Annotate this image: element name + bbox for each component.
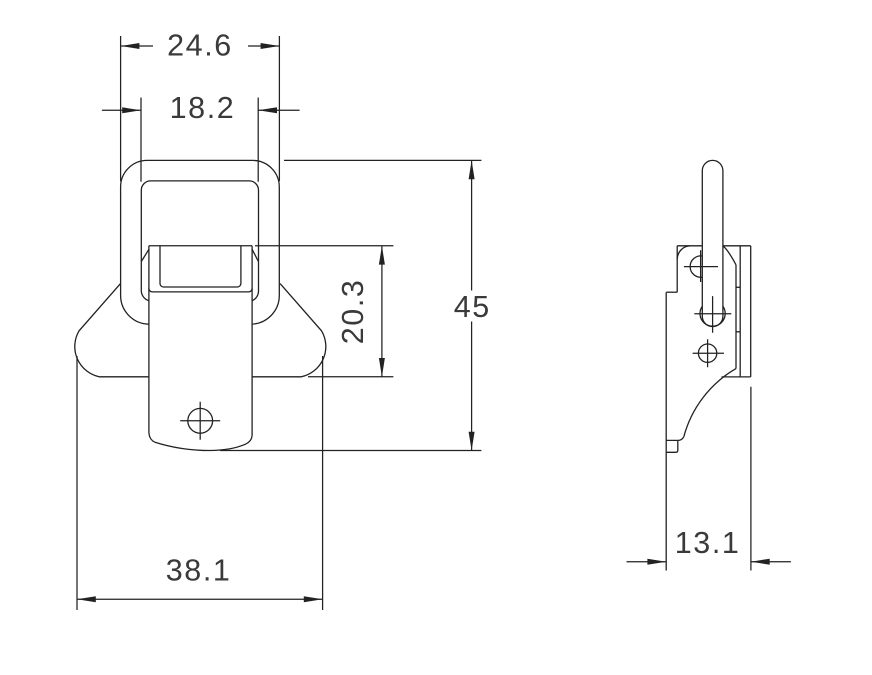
dimension 38.1: dimension line [77, 598, 323, 600]
side view foot fillet and top edge [666, 437, 684, 441]
side view upper mounting hole (arc, occluded by wire) [690, 256, 702, 277]
side view keeper plate right edge [750, 246, 752, 377]
side view lower hole crosshair [693, 339, 724, 367]
dimension 18.2: arrows [122, 107, 277, 113]
dimension 24.6: arrows [121, 43, 280, 49]
base plate (front view) [75, 284, 326, 377]
side view bracket face line [735, 265, 737, 369]
svg-text:24.6: 24.6 [167, 29, 233, 63]
side view bend arc top-left [677, 246, 690, 259]
dimension 45: arrows [469, 160, 475, 450]
side view upper hole crosshair [684, 250, 718, 282]
keeper flange chamfer left [141, 249, 149, 261]
svg-text:20.3: 20.3 [336, 279, 370, 345]
side view bend arc top-right [723, 246, 736, 265]
strap (front view) [149, 246, 252, 451]
dimension 20.3: dimension line [381, 246, 383, 377]
side view slot tick lower [736, 331, 740, 333]
side view bracket left edge lower (continues as 13.1 extension line) [665, 292, 667, 570]
side view foot right edge [666, 440, 678, 452]
svg-text:45: 45 [454, 290, 491, 324]
svg-text:13.1: 13.1 [675, 526, 741, 560]
rivet hole crosshair [180, 402, 220, 440]
dimension 45: dimension line [471, 160, 473, 450]
dimension 24.6: extension lines [121, 36, 280, 181]
loop inner (front view) [141, 181, 258, 301]
side view bracket left edge upper [676, 246, 678, 292]
dimension 24.6: dimension line stubs [121, 45, 280, 47]
dimension 38.1: arrows [77, 596, 323, 602]
dimension 18.2: outside arrow lines [102, 109, 300, 111]
side view wire bail (stadium) [702, 160, 723, 326]
side view slot tick upper [736, 286, 740, 288]
side view concave profile curve [684, 369, 736, 437]
side view lower hole [698, 344, 716, 362]
side view bracket step [666, 291, 677, 293]
side view pivot circle (arc, occluded by wire) [700, 306, 725, 326]
dimension 20.3: arrows [379, 246, 385, 377]
dimension 13.1: outside arrow lines [627, 561, 791, 563]
dimension 20.3: extension lines [255, 246, 393, 377]
keeper folded bottom edge [149, 288, 252, 292]
dimension 13.1: right extension line [750, 387, 752, 571]
keeper inner bend lines [160, 246, 241, 287]
dimension 45: extension lines [220, 160, 481, 450]
keeper flange chamfer right [252, 249, 258, 261]
dimension 38.1: extension lines [77, 356, 323, 610]
side view bracket top edge [677, 245, 751, 247]
svg-text:38.1: 38.1 [166, 553, 232, 587]
side view keeper plate front line [739, 246, 741, 377]
dimension 13.1: arrows [647, 559, 769, 565]
rivet hole (front view) [188, 408, 213, 433]
side view bottom edge [722, 376, 751, 378]
dimension 18.2: extension lines [141, 98, 258, 182]
loop outer (front view) [121, 160, 280, 324]
svg-text:18.2: 18.2 [170, 91, 236, 125]
side view pivot crosshair [694, 296, 731, 333]
